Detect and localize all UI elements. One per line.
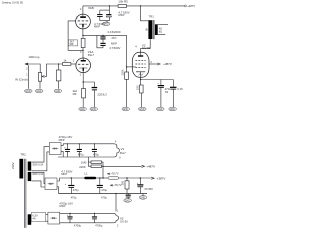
svg-text:GND: GND xyxy=(36,91,41,93)
wire anode to TR1 xyxy=(141,39,151,48)
capacitor filter B2 xyxy=(99,178,101,185)
wire V1B grid xyxy=(68,21,83,50)
resistor cathode V1A xyxy=(82,89,86,98)
svg-text:GU 50: GU 50 xyxy=(142,46,151,50)
svg-text:6SL7: 6SL7 xyxy=(88,53,95,57)
wire B+ top rail xyxy=(83,5,118,7)
heater V2 symbol xyxy=(113,209,128,227)
svg-text:4A: 4A xyxy=(32,217,35,221)
svg-text:GND: GND xyxy=(125,200,130,202)
node V1A anode junction xyxy=(82,50,83,51)
inductor L2 choke xyxy=(108,177,119,179)
svg-text:63: 63 xyxy=(165,90,169,94)
wire g2 to supply xyxy=(149,63,157,65)
capacitor heater B xyxy=(78,144,80,149)
svg-text:280V 0,3A: 280V 0,3A xyxy=(32,173,43,176)
svg-text:MKP: MKP xyxy=(59,138,65,142)
svg-text:V1B: V1B xyxy=(88,6,94,10)
svg-text:8Ω: 8Ω xyxy=(159,30,162,33)
heater V1 symbol xyxy=(114,141,126,160)
svg-text:GND: GND xyxy=(170,109,175,111)
wire rail B minus xyxy=(57,187,59,194)
svg-text:5k: 5k xyxy=(144,27,148,30)
svg-text:470µ: 470µ xyxy=(78,152,84,156)
wire to TR1 primary top xyxy=(141,6,149,21)
svg-text:MKP: MKP xyxy=(94,25,100,29)
svg-text:0,15/2000: 0,15/2000 xyxy=(108,30,121,34)
svg-text:5: 5 xyxy=(76,17,78,20)
svg-text:2: 2 xyxy=(117,225,119,228)
rectifier bridge B2 xyxy=(45,178,57,190)
svg-text:47/350: 47/350 xyxy=(144,187,153,191)
capacitor C decoupling pair xyxy=(94,5,130,28)
svg-text:470µ: 470µ xyxy=(73,188,79,192)
resistor grid leak 220k xyxy=(125,72,129,79)
svg-text:+: + xyxy=(65,183,67,186)
wire rail A plus xyxy=(61,144,63,146)
svg-text:GND: GND xyxy=(140,197,145,199)
svg-text:220/6,3: 220/6,3 xyxy=(97,93,107,97)
capacitor cathode bypass V1A xyxy=(83,82,107,111)
svg-text:470µ: 470µ xyxy=(93,152,99,156)
svg-text:GND: GND xyxy=(91,109,96,111)
wire secondary3 to bridge xyxy=(46,214,48,216)
tube V2 GU-50 xyxy=(132,43,152,79)
svg-text:4700µ: 4700µ xyxy=(74,223,82,227)
label box value xyxy=(68,40,77,46)
resistor R5 xyxy=(118,5,126,8)
svg-text:MKP: MKP xyxy=(118,13,124,17)
svg-text:GND: GND xyxy=(139,109,144,111)
svg-text:100: 100 xyxy=(121,180,125,185)
svg-text:GU-50: GU-50 xyxy=(120,219,128,223)
svg-text:V1: V1 xyxy=(121,147,125,151)
wire rail B plus xyxy=(57,178,84,181)
wire bleeder junction xyxy=(102,162,104,178)
capacitor cathode bypass electrolytic xyxy=(156,80,170,111)
svg-text:IN (Cinch): IN (Cinch) xyxy=(15,78,28,82)
node V2 cathode junction xyxy=(140,79,141,80)
svg-text:4: 4 xyxy=(115,141,117,144)
svg-text:+487V: +487V xyxy=(187,4,195,8)
svg-text:+387V: +387V xyxy=(157,176,166,180)
label node voltage 2 xyxy=(110,184,113,186)
svg-text:6SL7: 6SL7 xyxy=(120,151,127,155)
transformer TR1 xyxy=(144,14,168,39)
svg-text:220k: 220k xyxy=(120,69,124,76)
svg-text:100k log: 100k log xyxy=(28,55,39,59)
svg-text:350V 0,3A: 350V 0,3A xyxy=(32,163,43,166)
svg-text:2: 2 xyxy=(73,60,75,63)
svg-text:MKP: MKP xyxy=(111,42,117,46)
capacitor rail B small xyxy=(127,194,129,195)
node V1B cathode junction xyxy=(82,35,83,36)
svg-text:8: 8 xyxy=(119,157,121,160)
resistor divider to gnd xyxy=(126,178,128,181)
rectifier bridge B1 xyxy=(49,143,61,155)
resistor cathode V2 150 xyxy=(135,80,146,111)
resistor bleeder 220K xyxy=(88,162,91,166)
svg-text:+387V: +387V xyxy=(163,62,172,66)
transformer TR2 xyxy=(11,152,43,228)
capacitor heater A xyxy=(67,144,69,149)
label node voltage xyxy=(107,173,110,175)
svg-text:GND: GND xyxy=(123,109,128,111)
wire secondary1 to bridge xyxy=(32,147,50,163)
svg-text:+78,7V: +78,7V xyxy=(110,172,119,176)
wire rail C minus xyxy=(60,222,113,224)
node B+ terminal xyxy=(184,5,186,7)
node V1A cathode junction xyxy=(83,81,84,82)
svg-text:PIO: PIO xyxy=(112,36,118,40)
svg-text:470µ: 470µ xyxy=(101,188,107,192)
svg-text:TR1: TR1 xyxy=(149,14,155,18)
svg-text:+487V: +487V xyxy=(146,164,155,168)
ground rail B xyxy=(142,194,144,196)
svg-text:MF: MF xyxy=(70,42,74,46)
svg-text:4: 4 xyxy=(135,46,137,49)
wire rail C plus xyxy=(60,212,113,214)
svg-text:230V: 230V xyxy=(11,162,15,169)
potentiometer 100k log xyxy=(28,55,62,93)
capacitor divider bypass xyxy=(139,178,141,184)
resistor SRPP xyxy=(81,38,85,47)
svg-text:GND: GND xyxy=(80,109,85,111)
svg-text:1: 1 xyxy=(26,73,28,76)
svg-text:150: 150 xyxy=(135,85,139,90)
svg-text:MKP: MKP xyxy=(61,172,67,176)
svg-text:MF: MF xyxy=(73,92,77,96)
resistor bleeder 1M0 xyxy=(88,157,91,162)
svg-text:1k: 1k xyxy=(63,59,67,63)
svg-text:220K: 220K xyxy=(79,165,86,169)
wire +387V output xyxy=(151,177,154,179)
resistor grid leak input xyxy=(54,63,62,93)
svg-text:L1: L1 xyxy=(85,171,89,175)
svg-text:GND: GND xyxy=(55,91,60,93)
svg-text:470µ: 470µ xyxy=(101,195,107,199)
inductor L1 choke xyxy=(84,177,96,180)
capacitor cathode bypass film xyxy=(169,80,183,111)
svg-text:GND: GND xyxy=(157,109,162,111)
wire rail A minus xyxy=(61,151,63,157)
svg-text:4700µ: 4700µ xyxy=(95,223,103,227)
wire coupling rail xyxy=(83,34,127,36)
svg-text:GND: GND xyxy=(25,91,30,93)
svg-text:3: 3 xyxy=(80,51,82,54)
svg-text:4: 4 xyxy=(80,8,82,11)
svg-text:4,7/630V: 4,7/630V xyxy=(109,46,120,50)
svg-text:0,15: 0,15 xyxy=(177,87,183,91)
wire +487V output xyxy=(103,165,142,167)
node junction TR1 drop xyxy=(140,5,141,6)
wire to V2 heater xyxy=(115,194,117,212)
svg-text:TR2: TR2 xyxy=(20,152,26,156)
svg-text:470µ: 470µ xyxy=(71,195,77,199)
capacitor coupling PIO+MKP xyxy=(97,30,121,50)
tube V1A xyxy=(73,50,95,82)
svg-text:2: 2 xyxy=(26,68,28,71)
resistor 1k grid stopper xyxy=(63,63,71,66)
svg-text:10k R5: 10k R5 xyxy=(118,0,128,4)
capacitor heater V2 a xyxy=(69,213,71,216)
svg-text:Drawing: GU-50 SE: Drawing: GU-50 SE xyxy=(2,2,23,5)
svg-text:1: 1 xyxy=(117,209,119,212)
rectifier bridge B3 xyxy=(48,212,60,224)
input connector IN xyxy=(15,63,40,93)
wire secondary2 to bridge xyxy=(32,172,45,183)
ground xyxy=(122,107,130,111)
svg-text:MKP: MKP xyxy=(59,204,65,208)
capacitor heater V2 b xyxy=(94,213,96,216)
capacitor filter B1 xyxy=(70,178,72,185)
winding label box 6,3V xyxy=(31,213,46,222)
svg-text:1: 1 xyxy=(80,74,82,77)
capacitor heater C xyxy=(93,144,95,149)
wire V2 grid drop xyxy=(126,35,128,72)
tube V1B xyxy=(76,6,94,36)
